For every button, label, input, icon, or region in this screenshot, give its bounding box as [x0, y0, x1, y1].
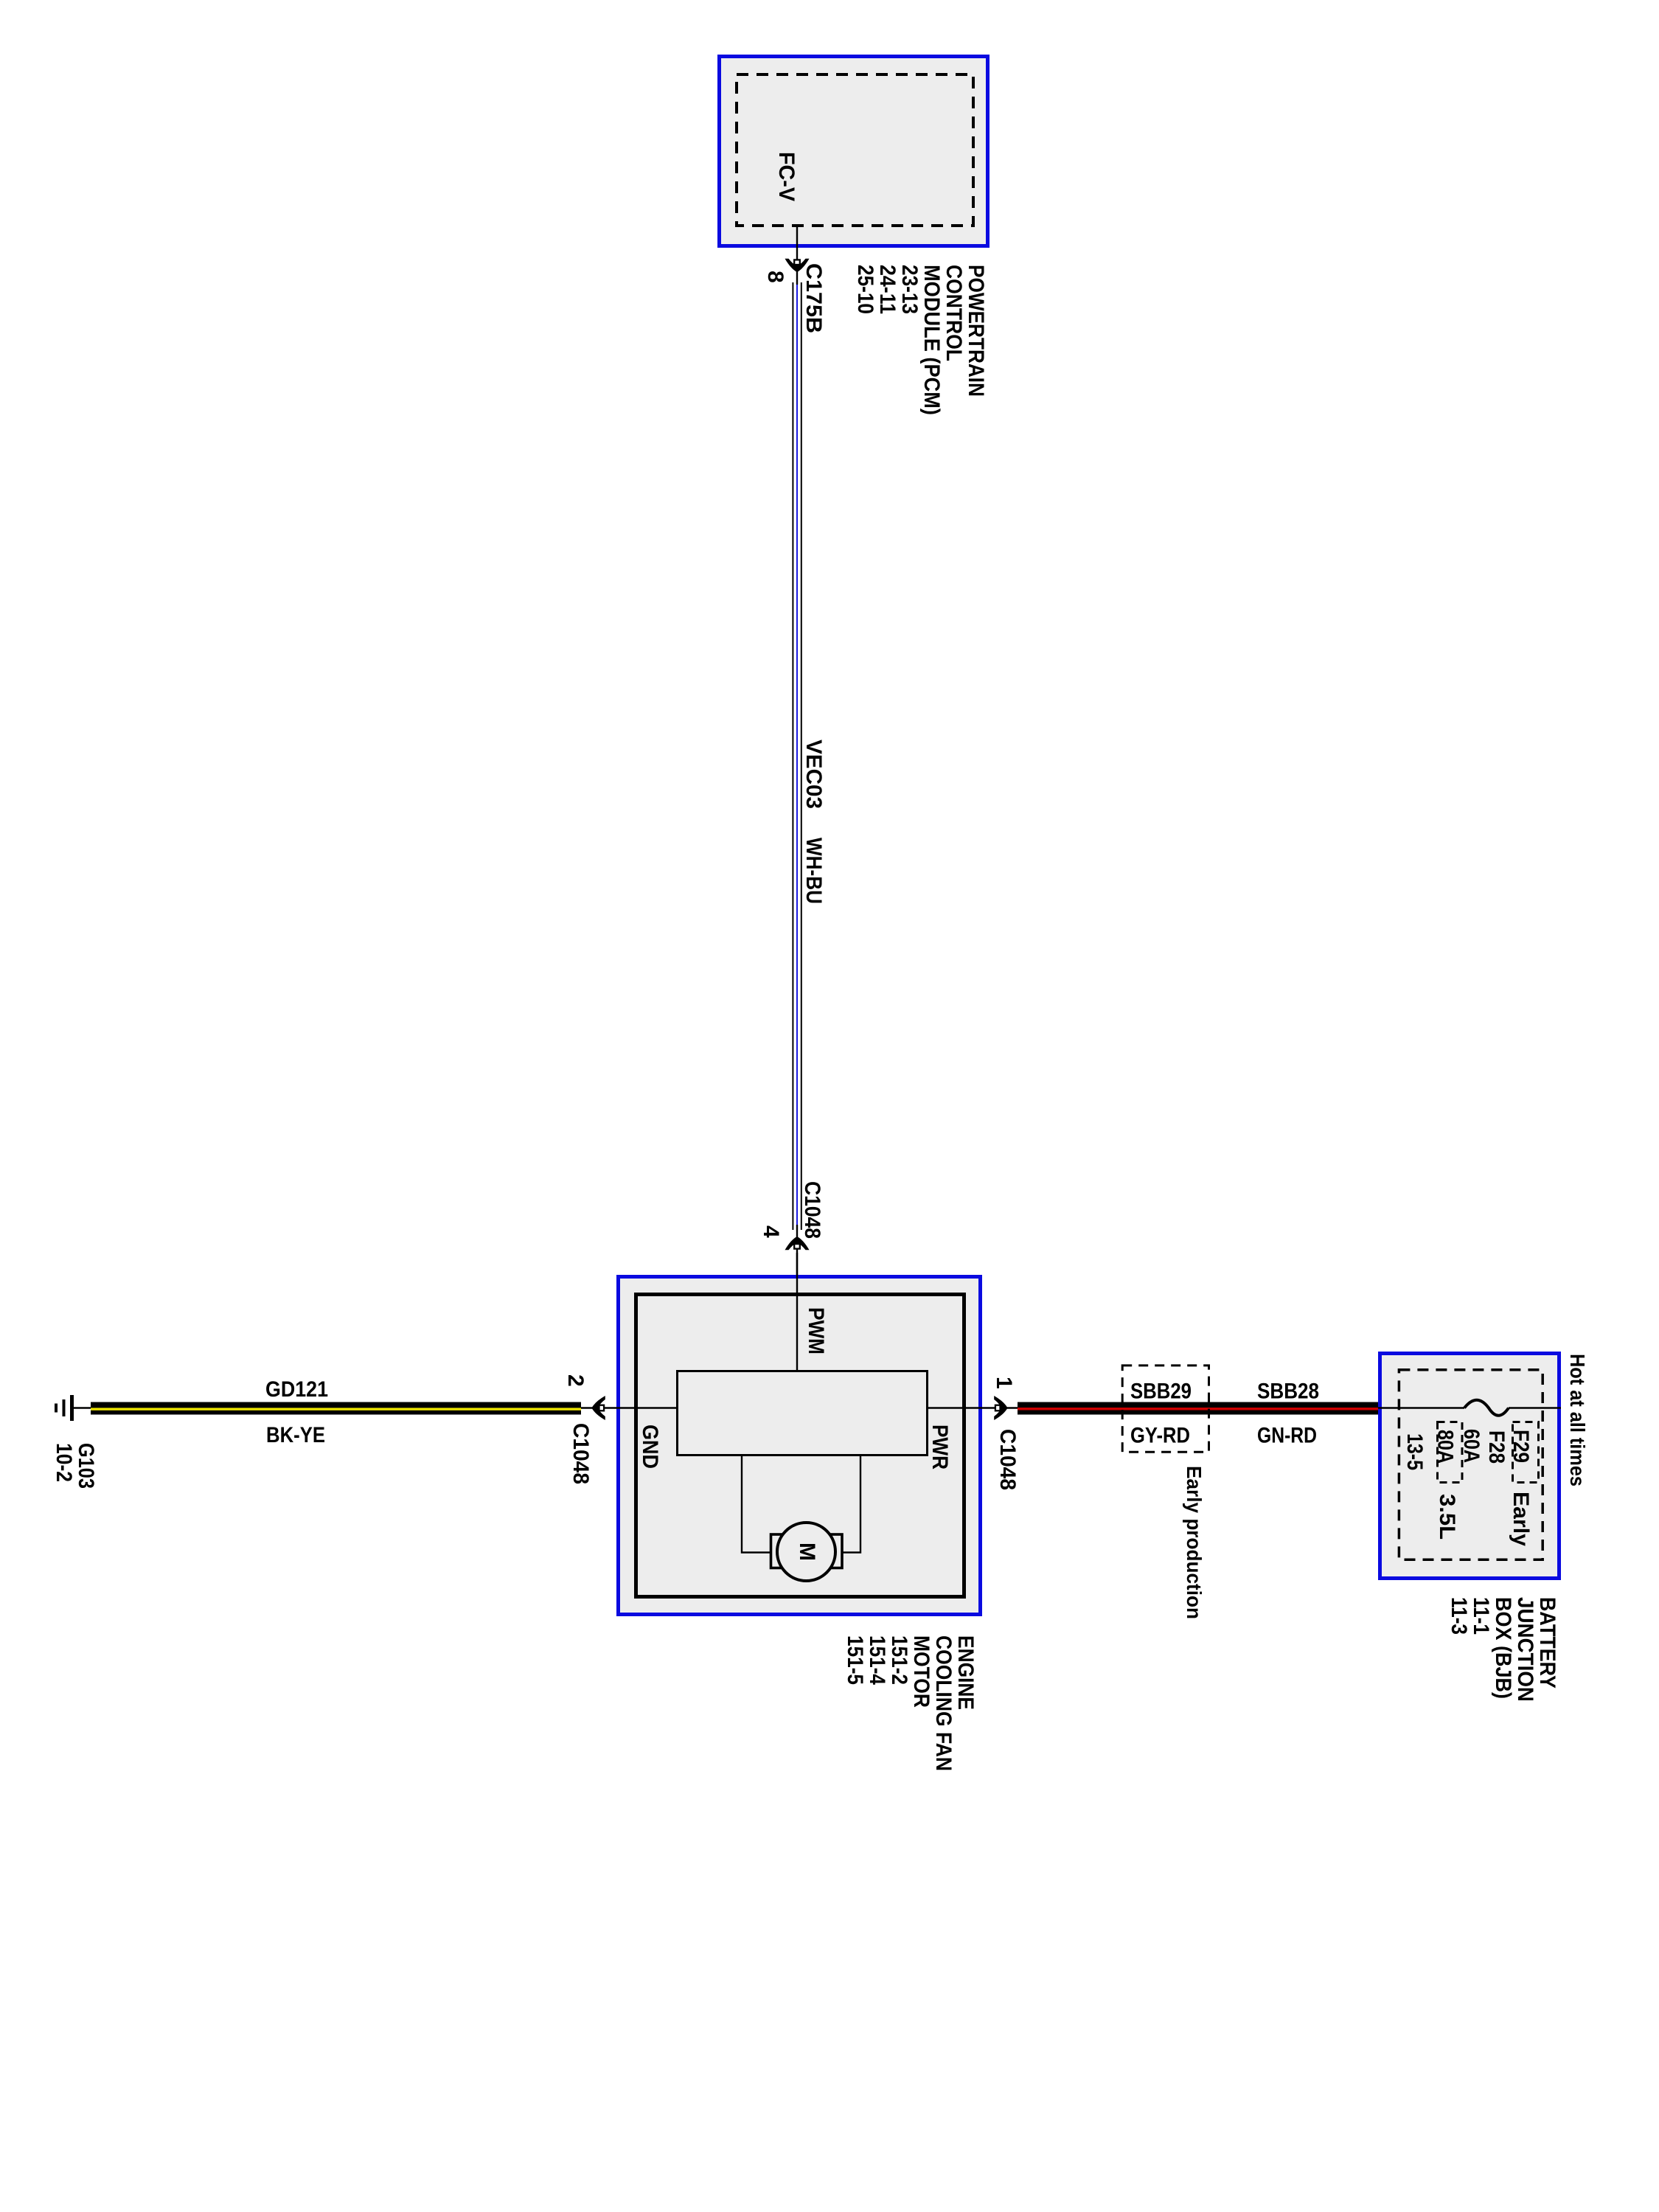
splice dashed box SBB29 — [1122, 1366, 1208, 1452]
svg-text:2: 2 — [563, 1374, 588, 1387]
wire : PWR lead — [928, 1407, 1019, 1408]
wire VEC03 (WH-BU) triple line — [793, 282, 801, 1230]
svg-text:3.5L: 3.5L — [1435, 1494, 1459, 1540]
motor brush left — [771, 1534, 787, 1568]
svg-text:BK-YE: BK-YE — [266, 1423, 325, 1447]
connector C1048 symbol (arrow pointing up) — [785, 1237, 810, 1250]
svg-text:C1048: C1048 — [568, 1423, 593, 1484]
svg-text:BOX (BJB): BOX (BJB) — [1491, 1597, 1515, 1699]
svg-text:M: M — [795, 1543, 819, 1561]
svg-text:80A: 80A — [1433, 1430, 1458, 1464]
svg-text:COOLING FAN: COOLING FAN — [931, 1635, 956, 1771]
PCM inner dashed outline — [737, 74, 973, 226]
svg-text:ENGINE: ENGINE — [953, 1635, 978, 1710]
svg-text:BATTERY: BATTERY — [1535, 1597, 1559, 1688]
dashed box around 80A — [1438, 1422, 1463, 1483]
svg-text:151-4: 151-4 — [865, 1635, 889, 1685]
svg-text:GN-RD: GN-RD — [1257, 1424, 1317, 1448]
wire SBB28 (GN-RD) thick — [1018, 1402, 1378, 1415]
svg-text:VEC03: VEC03 — [801, 740, 826, 809]
svg-text:SBB29: SBB29 — [1130, 1380, 1192, 1404]
svg-text:POWERTRAIN: POWERTRAIN — [964, 265, 988, 397]
wire : PCM pin 8 stub — [796, 227, 798, 285]
svg-text:F29: F29 — [1509, 1430, 1533, 1463]
svg-text:GY-RD: GY-RD — [1130, 1424, 1190, 1448]
svg-text:25-10: 25-10 — [853, 265, 877, 314]
svg-text:GD121: GD121 — [265, 1377, 328, 1402]
dashed box around F29 — [1513, 1422, 1539, 1483]
svg-text:4: 4 — [759, 1225, 783, 1238]
ground label G103 10-2 — [52, 1443, 98, 1489]
wire : fuse output line — [1509, 1407, 1561, 1408]
svg-text:Early production: Early production — [1183, 1466, 1206, 1619]
BJB inner dashed outline — [1399, 1370, 1543, 1560]
svg-text:24-11: 24-11 — [875, 265, 900, 314]
wire : fuse feed line — [1378, 1407, 1464, 1408]
svg-text:151-5: 151-5 — [843, 1635, 867, 1685]
connector C175B symbol (arrow pointing down) — [785, 259, 810, 272]
svg-text:60A: 60A — [1459, 1429, 1484, 1463]
svg-text:SBB28: SBB28 — [1257, 1380, 1319, 1404]
svg-text:GND: GND — [638, 1425, 662, 1469]
wire : pin 4 stub — [796, 1225, 798, 1275]
svg-text:MODULE (PCM): MODULE (PCM) — [919, 265, 944, 415]
svg-text:8: 8 — [763, 271, 787, 283]
wire GD121 (BK-YE) thick — [91, 1402, 581, 1415]
svg-text:FC-V: FC-V — [774, 152, 799, 201]
svg-text:Early: Early — [1509, 1492, 1533, 1546]
motor brush right — [826, 1534, 843, 1568]
wire : GND lead — [581, 1407, 676, 1408]
connector C1048 symbol right (arrow pointing right) — [994, 1396, 1007, 1420]
BJB name label — [1447, 1597, 1559, 1702]
PCM name label — [853, 265, 988, 415]
controller block inside motor — [678, 1371, 928, 1455]
motor name label — [843, 1635, 978, 1771]
svg-text:G103: G103 — [74, 1443, 98, 1489]
svg-text:10-2: 10-2 — [52, 1443, 76, 1482]
PCM component box : POWERTRAIN CONTROL MODULE — [720, 57, 988, 246]
fuse F28 symbol — [1464, 1400, 1509, 1416]
ground G103 — [56, 1395, 93, 1421]
svg-text:PWR: PWR — [928, 1425, 952, 1470]
svg-text:CONTROL: CONTROL — [942, 265, 966, 361]
connector C1048 symbol left (arrow pointing left) — [592, 1396, 605, 1420]
svg-text:F28: F28 — [1484, 1430, 1509, 1464]
svg-text:MOTOR: MOTOR — [909, 1635, 933, 1708]
svg-text:C1048: C1048 — [800, 1181, 824, 1239]
svg-text:11-1: 11-1 — [1469, 1597, 1493, 1635]
svg-text:151-2: 151-2 — [887, 1635, 911, 1685]
svg-text:PWM: PWM — [804, 1307, 828, 1354]
svg-text:11-3: 11-3 — [1447, 1597, 1471, 1635]
wire : motor drop left — [742, 1456, 771, 1553]
svg-text:Hot at all times: Hot at all times — [1566, 1354, 1589, 1486]
svg-text:1: 1 — [992, 1377, 1016, 1389]
svg-text:23-13: 23-13 — [897, 265, 922, 314]
motor M circle — [777, 1523, 835, 1581]
motor box inner black box — [636, 1295, 964, 1597]
battery junction box BJB blue box — [1380, 1354, 1559, 1579]
svg-text:C1048: C1048 — [995, 1429, 1020, 1490]
svg-text:C175B: C175B — [801, 263, 826, 333]
wire : motor drop right — [842, 1456, 860, 1553]
svg-text:JUNCTION: JUNCTION — [1513, 1597, 1537, 1702]
svg-text:13-5: 13-5 — [1402, 1433, 1427, 1470]
motor box : ENGINE COOLING FAN MOTOR outer blue box — [619, 1277, 981, 1615]
svg-text:WH-BU: WH-BU — [801, 838, 826, 904]
wire : PWM lead into controller — [796, 1253, 798, 1370]
